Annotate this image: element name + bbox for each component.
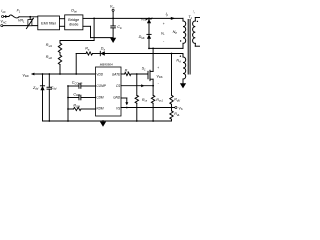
node clamp/drain junction	[148, 48, 150, 50]
svg-text:diode: diode	[69, 22, 78, 26]
wire VS pin to divider tap	[121, 107, 172, 109]
EMI filter block	[38, 16, 60, 30]
secondary winding Ns	[193, 21, 196, 43]
wire ground rail	[43, 120, 172, 122]
wire EMI to bridge top	[60, 18, 65, 20]
wire Vdd rail	[34, 73, 95, 75]
wire corner into Na top	[182, 53, 184, 56]
svg-text:+: +	[157, 66, 159, 70]
ground aux	[180, 83, 186, 88]
wire top input	[4, 16, 9, 18]
wire bridge - output to input ground	[83, 25, 91, 27]
ground primary	[102, 120, 104, 122]
capacitor Cin	[112, 18, 114, 25]
node Na phase dot	[180, 56, 181, 57]
resistor Rcs gate pulldown	[136, 73, 138, 75]
wire startup feed from + node	[93, 18, 95, 40]
transformer core	[187, 20, 189, 75]
wire Rst to Vdd rail	[59, 65, 61, 75]
ground input	[110, 38, 116, 43]
svg-text:MB95904: MB95904	[100, 63, 113, 67]
svg-text:EMI filter: EMI filter	[41, 21, 57, 25]
wire left bus	[67, 86, 69, 121]
resistor RdU upper divider	[171, 54, 173, 96]
wire source	[152, 79, 154, 86]
wire aux branch to Na	[105, 53, 183, 55]
node VS tap terminal	[171, 107, 173, 109]
wire drain	[152, 48, 154, 71]
svg-text:GATE: GATE	[112, 73, 121, 77]
svg-text:+: +	[163, 22, 165, 26]
svg-text:TVS: TVS	[140, 18, 146, 22]
svg-text:RDM: RDM	[96, 106, 104, 110]
wire top input to EMI	[19, 16, 38, 18]
svg-text:VDD: VDD	[96, 73, 103, 77]
svg-text:CDM: CDM	[96, 95, 104, 99]
node Ns phase dot	[197, 21, 198, 22]
wire GND pin with arrow	[121, 97, 127, 99]
svg-text:GND: GND	[113, 95, 121, 99]
svg-text:COMP: COMP	[96, 84, 106, 88]
wire main DC bus	[94, 17, 183, 19]
wire clamp to primary bottom	[149, 47, 183, 49]
node divider tap junction	[171, 53, 173, 55]
wire bridge + output	[83, 17, 94, 19]
wire EMI to bridge bottom	[60, 25, 65, 27]
wire CS pin with signal arrow	[121, 85, 153, 87]
node bridge + junction	[93, 18, 95, 20]
svg-text:Bridge: Bridge	[68, 18, 79, 22]
wire aux drop to Vdd rail	[75, 73, 77, 75]
wire bottom input	[3, 25, 38, 27]
node Np phase dot	[180, 40, 181, 41]
